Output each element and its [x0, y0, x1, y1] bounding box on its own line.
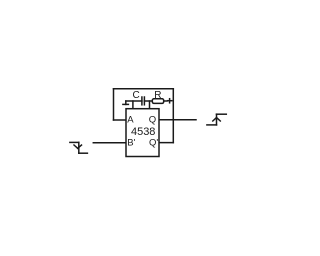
- rising edge symbol at Q output: [207, 124, 217, 126]
- wire Q output: [159, 119, 196, 121]
- capacitor C1 plates: [141, 97, 143, 105]
- wire feedback loop: top horizontal: [114, 88, 174, 90]
- wire B' input: [93, 142, 126, 144]
- wire feedback loop: left vertical: [113, 89, 115, 120]
- wire resistor to plus: [164, 100, 167, 102]
- svg-text:B': B': [127, 137, 135, 148]
- wire stub to Cx pin: [132, 101, 134, 109]
- wire feedback loop: Q' pin stub: [159, 142, 173, 144]
- wire timing net: ground to capacitor: [126, 100, 142, 102]
- svg-text:Q: Q: [149, 115, 156, 126]
- wire feedback loop: A pin stub: [114, 119, 127, 121]
- ground: [125, 101, 127, 104]
- wire feedback loop: right vertical: [172, 89, 174, 143]
- resistor R1 body: [152, 99, 163, 104]
- svg-text:Q': Q': [149, 137, 158, 148]
- IC U1 4538 body: [126, 109, 159, 157]
- falling edge symbol at B' input: [70, 141, 79, 143]
- wire stub to RCx pin: [149, 101, 151, 109]
- svg-text:A: A: [127, 115, 134, 126]
- wire capacitor to resistor: [144, 100, 152, 102]
- svg-text:R: R: [154, 90, 161, 101]
- svg-text:C: C: [133, 90, 140, 101]
- svg-text:4538: 4538: [131, 126, 155, 138]
- V+ supply symbol: [168, 100, 172, 102]
